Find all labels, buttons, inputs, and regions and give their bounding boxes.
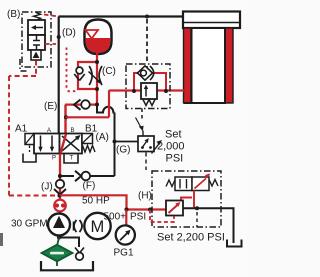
check valve in C bypass: seat	[74, 74, 84, 81]
cylinder: outer cap box	[183, 12, 240, 29]
counterbalance check valve: seat arc	[150, 66, 154, 80]
valve B drain bracket	[20, 59, 29, 71]
directional valve A: solenoid A1 drain dash	[29, 146, 31, 153]
suction strainer: green diamond	[42, 245, 73, 262]
svg-text:PSI: PSI	[166, 153, 184, 165]
wire: red E line to B-port drop	[65, 103, 97, 105]
node: dot at G tee	[113, 140, 117, 144]
counterbalance valve spring	[143, 100, 155, 106]
node: dot at 500 psi tee	[57, 193, 61, 197]
node: dot on B line	[64, 115, 68, 119]
flow control C: restrictor arcs	[89, 66, 102, 85]
accumulator D: gas separator triangle	[86, 30, 99, 39]
unloading valve H: main body	[166, 201, 183, 216]
accumulator D: red fluid fill	[86, 38, 111, 53]
unloading valve H: dash-dot enclosure	[152, 171, 221, 227]
node: junction dot on top line (pilot tap)	[145, 15, 149, 19]
flow control C: adjustment arrow	[89, 72, 100, 82]
directional valve A: left envelope straight arrows	[34, 134, 60, 154]
node: suction tee dot	[57, 235, 61, 239]
check valve F: seat	[75, 171, 81, 181]
node: red dot at H inlet	[148, 208, 152, 212]
wire: red check bypass loop of counterbalance	[134, 73, 166, 91]
svg-text:(A): (A)	[96, 132, 109, 143]
wire: pump suction	[58, 236, 60, 238]
valve B: lower blocked envelope	[28, 35, 45, 50]
node: dot at gauge tee	[124, 207, 128, 211]
counterbalance valve internal arrow	[145, 88, 147, 97]
H pilot valve: left envelope	[175, 177, 192, 191]
valve B: pilot box with triangle	[31, 50, 41, 60]
wire: red flow-control bypass loop C	[78, 62, 97, 89]
svg-text:PSI: PSI	[130, 212, 146, 223]
wire: black dashed pilot drain	[196, 212, 198, 227]
svg-text:T: T	[70, 156, 74, 162]
tank at H outlet	[227, 240, 242, 247]
node: junction dot on A-line	[57, 35, 61, 39]
svg-text:(G): (G)	[116, 145, 130, 156]
valve B: top spring	[34, 13, 41, 21]
motor: circle with M	[84, 213, 110, 239]
svg-text:P: P	[52, 156, 56, 162]
wire: red pilot drop from H pilot valve	[193, 191, 195, 209]
return check into tank: ball	[76, 252, 84, 260]
cylinder: rod bottom platen line	[184, 102, 223, 104]
wire: red dotted pilot down beside A line	[67, 48, 79, 92]
svg-text:(E): (E)	[44, 101, 57, 112]
wire: red counterbalance main line to cylinder	[109, 89, 184, 91]
enclosure: counterbalance dash-dot box	[126, 64, 170, 109]
svg-text:PG1: PG1	[114, 248, 134, 259]
gauge PG1: dial	[116, 225, 135, 244]
svg-text:500+: 500+	[104, 212, 127, 223]
svg-text:Set 2,200 PSI: Set 2,200 PSI	[157, 232, 225, 244]
return check into tank: seat	[75, 248, 84, 254]
cylinder: left red wall (rod side fluid)	[184, 28, 192, 103]
H pilot valve: right spring	[209, 180, 218, 187]
svg-text:M: M	[91, 218, 105, 236]
accumulator D: capsule body	[85, 20, 112, 55]
directional valve A: solenoid A1	[25, 134, 34, 145]
wire: red dashed sensing loop under H	[150, 210, 174, 223]
wire: strainer to tank	[56, 261, 58, 266]
wire: red accumulator drop line down through C to E junction	[96, 52, 98, 105]
relief valve G: drain dashed	[145, 153, 147, 171]
node: dot right counterbalance port	[164, 89, 168, 93]
wire: red dash from B valve top to top line	[44, 15, 57, 17]
node: dot on H outlet	[195, 206, 199, 210]
wire: black H outlet to tank	[183, 208, 234, 243]
annotation arrow pointing to G	[136, 118, 142, 128]
wire: black vertical branch to G and F line	[114, 113, 116, 177]
check valve J: ball	[56, 180, 64, 188]
wire: suction into filter	[57, 238, 59, 246]
directional valve A: right envelope crossed arrows	[60, 134, 83, 154]
gauge PG1: red stub	[125, 210, 127, 227]
wire: red line to unloading valve / gauge	[60, 195, 167, 209]
node: dot pump riser / F tee	[58, 174, 62, 178]
svg-text:A: A	[47, 128, 51, 134]
svg-text:A1: A1	[15, 124, 28, 135]
svg-text:Set: Set	[165, 129, 182, 141]
valve B: upper envelope with left flow arrow	[28, 20, 45, 35]
relief valve G: internal arrow	[142, 140, 148, 149]
node: dot bottom of C loop	[95, 87, 99, 91]
check valve F: ball	[82, 172, 91, 181]
svg-text:(J): (J)	[41, 182, 53, 193]
wire: red dashed pilot from B valve right side	[45, 43, 56, 45]
directional valve A: A1 drain bracket	[23, 154, 36, 163]
check valve E: ball	[81, 100, 90, 109]
check valve E: seat	[74, 100, 81, 110]
directional valve A: return spring right	[83, 146, 96, 153]
directional valve A: solenoid B1	[82, 134, 93, 144]
wire: red B-port line from E corner down through valve crossed envelope	[61, 105, 66, 153]
svg-text:2,000: 2,000	[157, 141, 185, 153]
node: dot top of C loop	[95, 60, 99, 64]
wire: red pilot link to main H valve	[181, 198, 192, 201]
wire: red dashed drain from B valve to left rail	[9, 61, 58, 196]
svg-text:(C): (C)	[102, 66, 116, 77]
H pilot valve: left spring	[166, 180, 175, 187]
wire: black dashed pilot line from top line to counterbalance box	[146, 19, 148, 71]
reservoir tank	[41, 261, 93, 270]
cylinder: piston line	[183, 22, 240, 24]
counterbalance drain dashes	[141, 109, 143, 120]
relief valve G: body	[138, 136, 154, 152]
counterbalance check valve: diamond	[138, 66, 153, 80]
svg-text:(H): (H)	[138, 191, 152, 202]
relief valve G: port dots	[141, 146, 144, 149]
svg-text:B: B	[71, 128, 75, 134]
svg-text:30 GPM: 30 GPM	[11, 219, 48, 230]
counterbalance valve body	[141, 83, 157, 99]
cylinder: right red wall (rod side fluid)	[225, 28, 233, 103]
pump: triangle	[53, 216, 65, 228]
cylinder: rod / ram	[192, 28, 226, 103]
wire: red pump pressure riser	[59, 154, 61, 214]
wire: black return line with crossover hop from E junction to right	[97, 105, 115, 113]
coupling pump-motor	[74, 220, 82, 232]
wire: top cap-end line from node above valve A to cylinder top	[59, 15, 184, 17]
pump: circle	[48, 214, 70, 236]
wire: vertical A-port line from top line down to valve port A	[58, 17, 60, 135]
wire: black F line bottom	[60, 175, 115, 177]
svg-text:(D): (D)	[62, 28, 76, 39]
node: dot at E/C junction	[95, 103, 99, 107]
svg-text:(B): (B)	[7, 9, 20, 20]
directional valve A: red flow highlight P to B	[61, 134, 67, 153]
relief valve G: adjustment arrow	[152, 143, 161, 154]
H pilot valve: right envelope with red arrow	[192, 177, 209, 191]
edge artifact bottom left	[0, 233, 3, 246]
check valve J: seat	[54, 189, 66, 195]
wire: red jog line from B-line dot to counterbalance riser	[66, 116, 110, 118]
svg-text:(F): (F)	[83, 181, 96, 192]
wire: suction branch right to return check	[59, 238, 79, 248]
wire: red riser to counterbalance line	[108, 90, 110, 117]
wire: stub to relief valve G	[115, 141, 139, 143]
counterbalance check valve: ball	[141, 70, 147, 76]
svg-text:50 HP: 50 HP	[82, 196, 110, 207]
node: dot left counterbalance port	[132, 89, 136, 93]
valve B pilot-operated dump: dash-dot enclosure	[22, 12, 51, 67]
directional valve A: tank bracket under T port	[64, 155, 78, 164]
check valve in C bypass: ball	[76, 67, 83, 74]
flow meter: red circle	[54, 200, 66, 212]
